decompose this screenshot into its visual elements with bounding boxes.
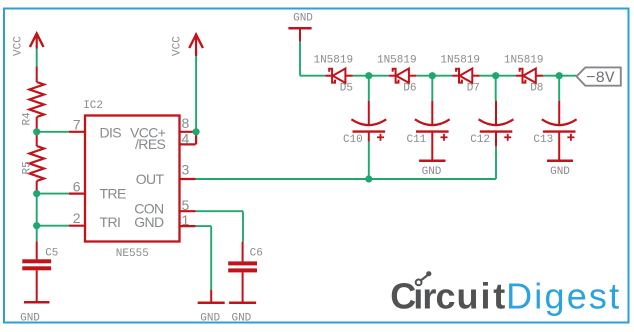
svg-text:GND: GND — [422, 166, 442, 178]
svg-text:R4: R4 — [21, 112, 33, 126]
svg-text:8: 8 — [182, 115, 190, 131]
svg-text:D7: D7 — [467, 82, 480, 94]
svg-text:DIS: DIS — [100, 125, 122, 141]
svg-text:R5: R5 — [21, 161, 33, 174]
svg-text:2: 2 — [73, 210, 81, 226]
svg-text:GND: GND — [550, 166, 570, 178]
svg-text:GND: GND — [134, 214, 164, 230]
svg-text:1N5819: 1N5819 — [313, 55, 353, 67]
svg-text:D6: D6 — [403, 82, 416, 94]
svg-text:5: 5 — [182, 197, 190, 213]
svg-text:D8: D8 — [530, 82, 543, 94]
svg-text:1N5819: 1N5819 — [504, 55, 544, 67]
svg-text:TRI: TRI — [100, 214, 121, 230]
svg-text:1N5819: 1N5819 — [377, 55, 417, 67]
svg-text:GND: GND — [200, 313, 220, 325]
svg-text:C10: C10 — [343, 134, 363, 146]
svg-text:GND: GND — [293, 12, 313, 24]
svg-text:TRE: TRE — [100, 186, 126, 202]
svg-text:1: 1 — [182, 212, 190, 228]
svg-text:C12: C12 — [470, 134, 490, 146]
svg-text:VCC: VCC — [12, 36, 24, 56]
svg-text:C13: C13 — [533, 134, 553, 146]
svg-text:NE555: NE555 — [116, 248, 149, 260]
svg-text:1N5819: 1N5819 — [440, 55, 480, 67]
svg-text:7: 7 — [73, 117, 81, 133]
svg-text:C11: C11 — [406, 134, 426, 146]
svg-text:D5: D5 — [340, 82, 353, 94]
svg-text:GND: GND — [20, 313, 40, 325]
svg-text:−8V: −8V — [586, 69, 615, 87]
svg-text:6: 6 — [73, 179, 81, 195]
svg-text:IC2: IC2 — [83, 100, 103, 112]
svg-text:OUT: OUT — [136, 171, 165, 187]
svg-text:/RES: /RES — [135, 136, 166, 152]
svg-text:C6: C6 — [250, 247, 263, 259]
svg-text:VCC: VCC — [172, 36, 184, 56]
svg-text:4: 4 — [182, 131, 190, 147]
svg-text:3: 3 — [182, 162, 190, 178]
svg-text:C5: C5 — [45, 247, 58, 259]
svg-text:GND: GND — [231, 313, 251, 325]
svg-text:Digest: Digest — [506, 275, 621, 316]
svg-text:Cırcuit: Cırcuit — [390, 275, 505, 316]
